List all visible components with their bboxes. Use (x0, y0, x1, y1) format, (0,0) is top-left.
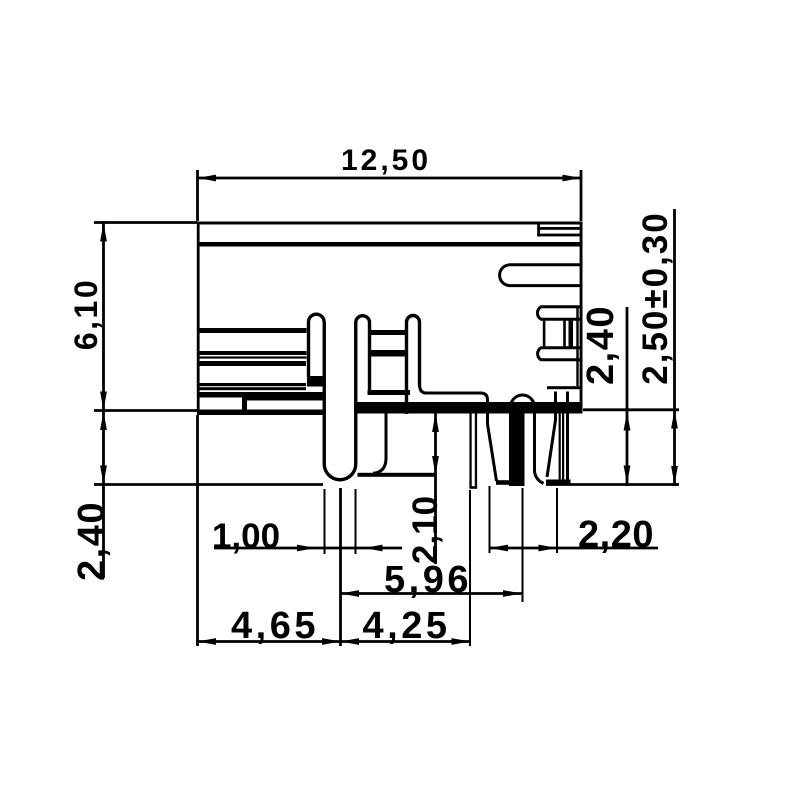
arrow 2.40L bottom (100, 466, 107, 485)
left ladder line L2 (199, 351, 307, 355)
dim 12.50 extension right (580, 170, 583, 221)
dim 12.50 extension left (196, 170, 199, 221)
arrow 2.50R top (671, 410, 678, 429)
arrowheads (100, 175, 678, 645)
arrow 1.00 right (364, 545, 383, 552)
dim 2.40 right line (626, 307, 629, 486)
bent lead H vertical (385, 412, 388, 460)
contact finger bar 1 (500, 265, 582, 286)
bottom dim line 4.65 / 4.25 (198, 640, 471, 643)
arrow 4.25 left (341, 638, 360, 645)
svg-text:2,40: 2,40 (71, 501, 113, 581)
dimension texts (68, 144, 675, 647)
press pin U (long center pin) (324, 322, 356, 480)
left step shelf (247, 398, 324, 401)
body right edge inner double line (576, 306, 578, 386)
narrow pin G right edge (475, 412, 477, 488)
arrow 2.10 top (432, 414, 439, 433)
dim 5.96 extension right (522, 488, 524, 602)
top right notch vertical (537, 223, 540, 237)
dim 1.00 extension left (324, 489, 326, 554)
arrow 1.00 left (297, 545, 316, 552)
pin F left diagonal (547, 420, 556, 477)
pin F inner line b (562, 409, 564, 482)
dim 1.00 line (214, 547, 402, 550)
pin F right edge (566, 392, 569, 481)
pin C-D floor (368, 390, 411, 395)
left ladder shelf L7 (199, 392, 323, 398)
arrow 5.96 right (503, 590, 522, 597)
arrow 2.20 right (539, 545, 558, 552)
bent lead H bottom bar (358, 473, 437, 477)
dim 2.50 right line (673, 209, 676, 486)
svg-text:2,10: 2,10 (406, 496, 445, 564)
dim 6.10 bottom extension (94, 409, 197, 412)
seating plane line left (94, 483, 323, 486)
dim 2.20 extension left (489, 486, 491, 553)
pin F inner line a (559, 409, 561, 482)
dim 1.00 extension right (355, 489, 357, 554)
body left edge (197, 222, 200, 414)
finger block vertical c thick (569, 319, 574, 348)
left dimension vertical line (102, 221, 105, 578)
body bottom band right (354, 402, 583, 414)
arrow 2.40R bottom (624, 466, 631, 485)
finger block vertical b (563, 319, 566, 348)
left bottom extension for 4.65 (196, 415, 199, 646)
arrow 4.65 left (198, 638, 217, 645)
finger block vertical a (543, 319, 546, 348)
narrow pin G bottom cap (469, 486, 477, 489)
svg-text:2,40: 2,40 (580, 305, 622, 385)
rung C-D lower thick (371, 350, 407, 357)
narrow pin G left edge (469, 412, 471, 488)
arrow 2.10 bottom (432, 456, 439, 475)
dim 6.10 top extension (94, 221, 197, 224)
svg-text:12,50: 12,50 (341, 144, 431, 177)
dim 2.10 line (434, 412, 437, 564)
left ladder line L3 (199, 356, 307, 358)
svg-text:2,50±0,30: 2,50±0,30 (636, 211, 675, 384)
pin E foot (496, 480, 511, 485)
rung C-D upper (371, 330, 407, 335)
dim 2.20 line (490, 547, 659, 550)
right inner shelf line (547, 386, 583, 389)
left ladder line L6 (199, 387, 307, 390)
arrow 6.10 top (100, 223, 107, 242)
body bottom band left (197, 410, 326, 416)
arrow 6.10 bottom (100, 392, 107, 411)
arrow 4.25 right (452, 638, 471, 645)
svg-text:6,10: 6,10 (68, 278, 104, 350)
contact finger bar 2 (537, 307, 581, 319)
pin D arch (407, 316, 420, 415)
arrow 5.96 left (341, 590, 360, 597)
top right notch line 2 (537, 234, 582, 237)
pin F left edge (554, 392, 557, 421)
pin E arch (511, 395, 544, 486)
arrow 12.50 left (198, 175, 217, 182)
arrow 2.40L top (100, 412, 107, 431)
arrow 4.65 right (322, 638, 341, 645)
arrow 2.40R top (624, 412, 631, 431)
right reference line upper (583, 408, 679, 411)
arrow 12.50 right (563, 175, 582, 182)
body right edge (580, 222, 583, 412)
dim 5.96 line (341, 592, 522, 595)
left ladder line L4 (199, 361, 307, 366)
dim 12.50 line (198, 177, 582, 180)
dim 2.20 extension right (556, 488, 558, 553)
svg-text:1,00: 1,00 (212, 517, 280, 556)
pin A arch (309, 314, 325, 377)
left ladder line L1 (199, 328, 307, 333)
left ladder line L5 (199, 383, 307, 386)
left step vertical (242, 396, 247, 411)
arrow 2.50R bottom (671, 466, 678, 485)
seating plane line right (546, 483, 679, 486)
center extension line (pin axis) (339, 488, 342, 646)
svg-text:5,96: 5,96 (384, 559, 472, 601)
top right notch line 1 (537, 227, 582, 230)
svg-text:4,65: 4,65 (231, 605, 319, 647)
pin D ledge to pin E lead (420, 384, 497, 481)
top thick inner wall line (197, 242, 582, 247)
pin C arch (356, 316, 370, 390)
arrow 2.20 left (490, 545, 509, 552)
svg-text:2,20: 2,20 (578, 514, 654, 556)
body top edge (197, 222, 582, 225)
contact finger bar 3 (538, 348, 582, 360)
pin F foot (546, 480, 571, 485)
pin E inner stripe (511, 406, 525, 486)
bent lead H curve (373, 458, 386, 473)
dim 4.25 extension right (469, 490, 471, 646)
svg-text:4,25: 4,25 (363, 605, 451, 647)
pin A filled block (307, 376, 323, 387)
